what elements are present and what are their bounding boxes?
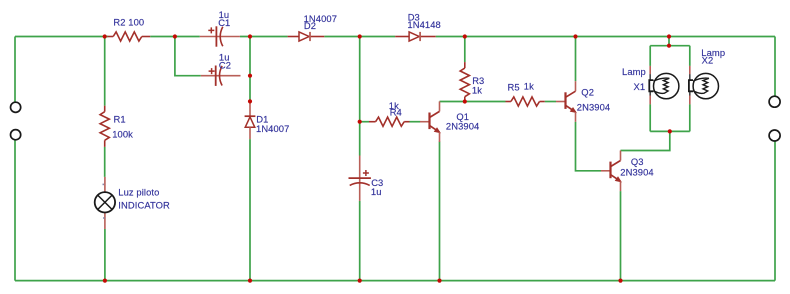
wire lamp X2 bottom	[689, 104, 691, 131]
capacitor C1	[200, 9, 240, 47]
svg-text:D2: D2	[304, 20, 316, 31]
wire Q1 collector to R3 R5 node	[440, 101, 506, 103]
diode D3	[395, 11, 441, 41]
capacitor C3	[349, 156, 384, 201]
lamp X2	[689, 47, 725, 104]
wire left bottom drop	[14, 140, 16, 281]
svg-text:R2 100: R2 100	[113, 16, 144, 27]
wire top rail segment 5	[436, 36, 775, 38]
wire Q2 collector to top rail	[575, 37, 577, 82]
wire right drop to pin	[774, 37, 776, 97]
junction dots middle	[248, 44, 672, 134]
svg-text:2N3904: 2N3904	[446, 121, 479, 132]
wire lamp box bottom	[650, 130, 690, 132]
indicator lamp Luz piloto	[95, 177, 170, 229]
wire left drop to pin	[14, 37, 16, 103]
svg-text:X2: X2	[702, 55, 714, 66]
wire indicator lamp to bottom rail	[104, 229, 106, 281]
connector pin right bottom	[769, 130, 780, 141]
wire Q2 emitter to Q3 base	[576, 122, 602, 171]
wire R3 top	[464, 37, 466, 63]
svg-text:1k: 1k	[524, 81, 534, 92]
diode D2	[288, 13, 337, 41]
wire top rail segment 1	[15, 36, 108, 38]
svg-text:2N3904: 2N3904	[577, 101, 610, 112]
wire lamp box top	[650, 45, 690, 47]
junction dots top rail	[103, 34, 672, 38]
svg-text:R4: R4	[390, 107, 402, 118]
transistor Q3	[601, 151, 654, 192]
resistor R2	[108, 16, 151, 41]
wire top rail segment 4	[324, 36, 395, 38]
wire C3 branch vertical	[359, 37, 361, 156]
wire right bottom drop	[774, 141, 776, 281]
wire C1 C2 right junction vertical	[249, 37, 251, 102]
svg-text:Luz piloto: Luz piloto	[118, 187, 159, 198]
connector pin right top	[769, 96, 780, 107]
svg-text:R5: R5	[508, 81, 520, 92]
svg-text:1N4148: 1N4148	[407, 19, 440, 30]
svg-text:1k: 1k	[472, 85, 482, 96]
wire Q3 emitter to bottom rail	[620, 191, 622, 281]
svg-text:1N4007: 1N4007	[256, 123, 289, 134]
svg-text:X1: X1	[634, 81, 646, 92]
wire top rail segment 3	[240, 36, 288, 38]
wire R4 to Q1 base	[410, 121, 421, 123]
diode D1	[245, 101, 290, 139]
wire R1 to indicator lamp	[104, 147, 106, 177]
wire R5 right to Q2 base	[545, 101, 556, 103]
resistor R4	[369, 100, 410, 126]
svg-text:Lamp: Lamp	[622, 66, 646, 77]
svg-text:100k: 100k	[112, 128, 133, 139]
resistor R1	[100, 106, 133, 147]
transistor Q1	[420, 101, 479, 142]
wire lamp X2 top	[689, 46, 691, 66]
resistor R5	[506, 81, 545, 107]
lamp X1	[622, 66, 679, 104]
wire C2 branch	[175, 37, 201, 76]
resistor R3	[460, 62, 484, 101]
svg-text:1u: 1u	[371, 186, 382, 197]
wire lamp X1 bottom	[649, 104, 651, 131]
svg-text:Q2: Q2	[581, 87, 594, 98]
connector pin left bottom	[11, 130, 21, 140]
wire top rail segment 2	[150, 36, 200, 38]
wire Q1 emitter to bottom rail	[439, 142, 441, 281]
wire C3 to bottom rail	[359, 201, 361, 281]
junction dots bottom rail	[103, 279, 623, 283]
wire lamp X1 top	[649, 46, 651, 66]
wire bottom rail	[15, 280, 775, 282]
svg-text:R1: R1	[114, 113, 126, 124]
svg-text:C1: C1	[218, 17, 230, 28]
wire lamp feed stub	[668, 37, 670, 46]
transistor Q2	[556, 81, 610, 122]
wire Q3 collector	[621, 131, 670, 150]
svg-text:INDICATOR: INDICATOR	[118, 200, 170, 211]
capacitor C2	[201, 52, 241, 86]
wire D1 to bottom rail	[249, 139, 251, 281]
wire R1 branch upper	[104, 37, 106, 106]
wire R4 left stub green	[360, 121, 369, 123]
svg-text:C2: C2	[219, 59, 231, 70]
svg-text:2N3904: 2N3904	[620, 166, 653, 177]
connector pin left top	[11, 102, 21, 112]
